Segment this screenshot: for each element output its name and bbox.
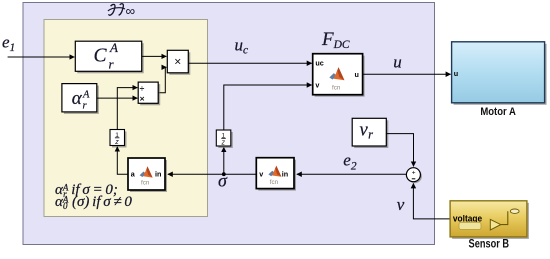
wire C out to product [142,55,167,57]
svg-text:A: A [82,90,90,101]
svg-text:in: in [282,169,288,178]
block Cr^A (controller) [75,40,143,74]
block alpha_r^A [62,84,99,114]
wire e1 [8,56,75,58]
svg-text:in: in [155,170,161,179]
divide block [138,82,160,105]
svg-text:voltage: voltage [453,213,482,223]
svg-text:fcn: fcn [270,179,279,186]
svg-text:u: u [454,69,458,78]
svg-text:σ: σ [218,171,228,191]
MATLAB fcn block 2 (mirrored) [256,158,296,191]
wire sensor v left and up into sum bottom [413,183,450,219]
label H-infinity [108,4,125,16]
wire delay1 out up and over to divide top input [117,88,137,130]
MATLAB fcn block FDC [313,54,365,97]
wire vr out down to sum [386,134,413,167]
svg-text:×: × [174,55,181,69]
svg-text:÷: ÷ [140,83,145,93]
svg-text:×: × [140,93,145,103]
svg-text:uc: uc [315,59,323,68]
svg-text:z: z [221,140,226,147]
svg-text:v: v [397,195,405,214]
wire alpha out to divide lower input [97,97,138,99]
subsystem box H-infinity outer [23,3,435,245]
svg-text:A: A [109,40,118,55]
inner yellow subsystem area [44,20,208,217]
Sensor B block [450,201,529,239]
svg-text:u: u [355,70,359,79]
svg-text:z: z [114,139,119,146]
svg-text:u: u [393,52,402,71]
svg-text:v: v [315,81,319,90]
svg-text:Motor A: Motor A [480,106,516,118]
svg-text:fcn: fcn [332,85,341,92]
wire product out (uc) to FDC uc input [188,62,311,64]
svg-text:αA0 (σ) if σ ≠ 0: αA0 (σ) if σ ≠ 0 [55,194,132,211]
MATLAB fcn block 1 (mirrored) [128,158,167,192]
Motor A block [452,42,547,105]
wire fcn2 v out to fcn1 in [168,173,256,175]
wire delay2 out up to FDC v input [224,85,312,130]
svg-text:v: v [259,169,263,178]
wire junction up into delay2 [223,147,225,174]
svg-text:C: C [94,46,108,67]
svg-text:Sensor B: Sensor B [469,238,510,251]
svg-text:α: α [72,88,83,109]
wire divide out up to product lower input [158,67,166,92]
wire FDC u out to Motor A [363,73,451,75]
junction node sigma [222,172,226,176]
product block x [167,50,190,75]
wire fcn1 a out, left and up into delay1 [117,147,128,175]
block vr (reference) [352,118,388,148]
svg-text:fcn: fcn [141,180,150,187]
wire sum out e2 to fcn2 in [297,173,407,175]
sum block [406,168,422,184]
unit delay 2 (1/z) [216,130,233,148]
svg-text:∞: ∞ [126,4,136,19]
unit delay 1 (1/z) [110,130,127,148]
svg-text:+: + [412,169,416,176]
